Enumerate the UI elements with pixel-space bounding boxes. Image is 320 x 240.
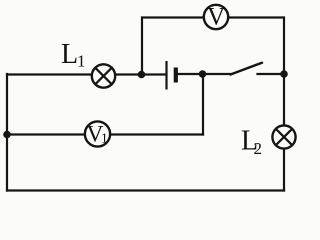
- battery short thick plate (negative): [174, 68, 178, 83]
- svg-text:1: 1: [101, 130, 108, 145]
- wire: bottom wire: [7, 189, 284, 191]
- wire: right rail upper (node C to lamp L2): [283, 74, 285, 126]
- wire: V1 branch horizontal: [7, 133, 86, 135]
- node D junction dot (left rail / V1 branch): [3, 131, 11, 139]
- lamp L1: [92, 64, 115, 87]
- wire: left rail: [6, 74, 8, 191]
- svg-text:L: L: [61, 39, 78, 70]
- wire: lamp L1 to battery: [115, 73, 166, 75]
- voltmeter V (top): [204, 4, 228, 31]
- voltmeter V1: [85, 121, 110, 147]
- svg-text:1: 1: [77, 52, 86, 71]
- switch S blade: [231, 63, 263, 75]
- wire: switch right contact to node C: [258, 73, 285, 75]
- wire: battery to node B: [178, 73, 203, 75]
- wire: V1 branch vertical up to node B: [202, 74, 204, 135]
- lamp L2: [272, 125, 295, 148]
- node B junction dot (between battery and switch): [199, 70, 207, 78]
- wire: top wire right segment (V loop, right of meter V): [229, 18, 285, 75]
- battery long plate (positive): [165, 61, 167, 90]
- svg-text:2: 2: [254, 139, 263, 158]
- node A junction dot (between L1 and battery): [138, 71, 146, 79]
- wire: node B to switch pivot: [203, 73, 231, 75]
- wire: V1 to corner: [110, 133, 203, 135]
- wire: right rail lower (lamp L2 to bottom wire): [283, 148, 285, 190]
- wire: main line from left rail to lamp L1: [7, 73, 92, 75]
- wire: top wire left segment (V loop, left of meter V): [142, 18, 204, 75]
- svg-text:V: V: [207, 4, 225, 31]
- node C junction dot (right rail / switch): [280, 70, 288, 78]
